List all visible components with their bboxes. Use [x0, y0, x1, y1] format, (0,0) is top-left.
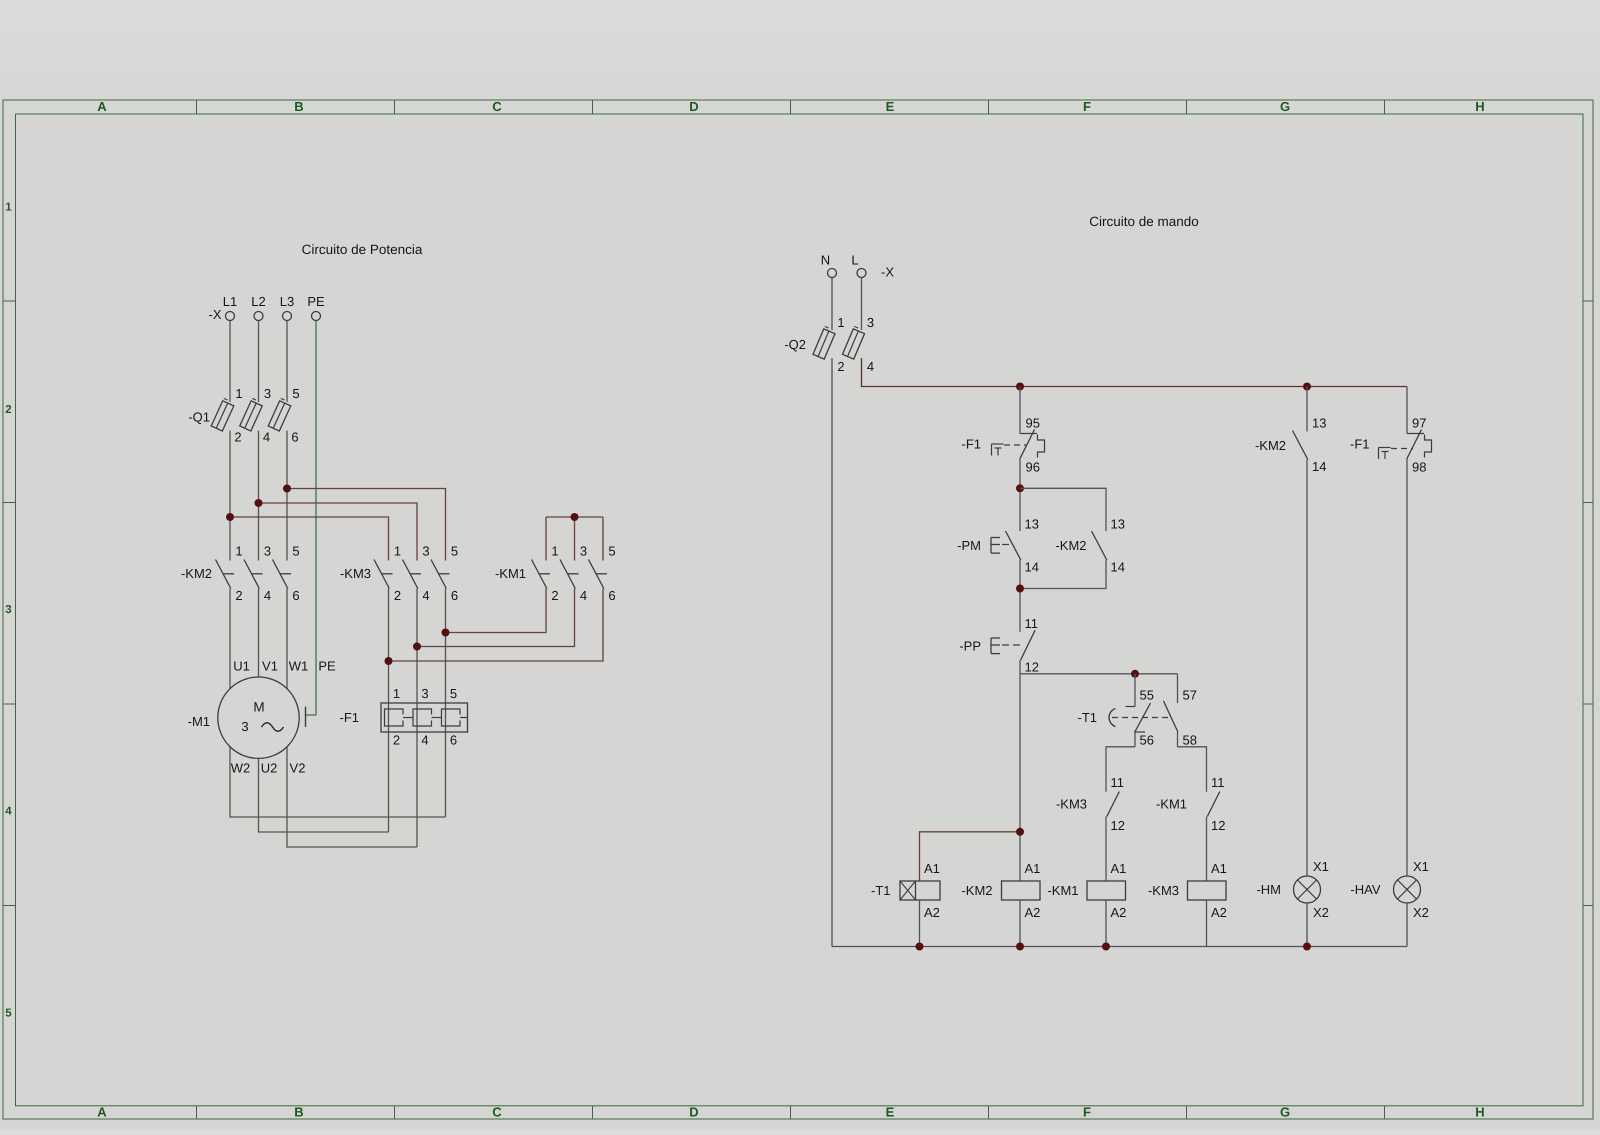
wire 58 to KM1 aux	[1178, 747, 1207, 792]
svg-text:C: C	[492, 1105, 502, 1120]
svg-text:Circuito de Potencia: Circuito de Potencia	[302, 242, 423, 257]
svg-text:N: N	[821, 253, 830, 268]
wire PE green down to motor	[306, 321, 317, 716]
svg-text:-HAV: -HAV	[1350, 882, 1380, 897]
node KM3-KM1 join 6	[442, 629, 450, 637]
aux contact -KM2 13-14 lamp branch	[1255, 387, 1327, 475]
wire -KM1 pole 4 to node	[417, 589, 575, 647]
svg-text:PE: PE	[307, 294, 325, 309]
svg-text:F: F	[1083, 99, 1091, 114]
svg-text:D: D	[689, 99, 698, 114]
svg-text:E: E	[886, 1105, 895, 1120]
wire -KM1 pole 6 to node	[389, 589, 604, 662]
svg-text:-KM2: -KM2	[1255, 438, 1286, 453]
coil -KM1	[1047, 861, 1126, 920]
wire rail to -F1 95	[1019, 387, 1021, 434]
svg-text:W2: W2	[231, 761, 251, 776]
wire F1 98 to lamp HAV	[1406, 459, 1408, 877]
node rail to KM2 13	[1303, 383, 1311, 391]
coil -KM2	[961, 861, 1040, 920]
motor -M1	[188, 659, 336, 776]
wire branch to timer coil T1	[920, 832, 1021, 881]
contactor -KM3 main contacts	[340, 544, 458, 604]
svg-text:14: 14	[1111, 560, 1125, 575]
svg-text:2: 2	[5, 404, 11, 416]
svg-text:-KM2: -KM2	[1055, 538, 1086, 553]
contactor -KM2 main contacts	[181, 544, 300, 604]
svg-text:2: 2	[394, 588, 401, 603]
wire L3 from -Q1 to -KM2 pole 5	[286, 431, 288, 561]
node L2 junction	[255, 499, 263, 507]
svg-text:2: 2	[234, 430, 241, 445]
svg-text:5: 5	[5, 1008, 12, 1020]
svg-text:-T1: -T1	[871, 883, 891, 898]
timer operator -T1	[1109, 709, 1172, 727]
svg-text:1: 1	[394, 544, 401, 559]
wire PM 14 down	[1019, 560, 1021, 632]
svg-text:2: 2	[837, 359, 844, 374]
node rejoin 14	[1016, 585, 1024, 593]
svg-text:5: 5	[292, 386, 299, 401]
svg-text:-Q1: -Q1	[188, 410, 210, 425]
wire L2 from -Q1 to -KM2 pole 3	[258, 431, 260, 561]
svg-text:3: 3	[5, 604, 11, 616]
svg-text:4: 4	[422, 588, 429, 603]
wire N rail down	[831, 358, 833, 947]
wire branch to KM2 13	[1020, 488, 1106, 531]
svg-text:2: 2	[235, 588, 242, 603]
wire motor V2 to -F1 pin 4	[287, 747, 417, 847]
node N T1	[916, 943, 924, 951]
frame row numbers left	[5, 202, 12, 1020]
node KM3-KM1 join 2	[385, 657, 393, 665]
wire motor W2 to -F1 pin 6	[230, 747, 446, 817]
svg-text:3: 3	[264, 386, 271, 401]
wire L from -X to -Q2	[861, 278, 863, 331]
svg-text:V1: V1	[262, 659, 278, 674]
svg-text:A1: A1	[1211, 861, 1227, 876]
svg-text:-HM: -HM	[1256, 882, 1281, 897]
svg-text:X2: X2	[1413, 905, 1429, 920]
svg-text:-KM2: -KM2	[961, 883, 992, 898]
svg-text:-F1: -F1	[340, 710, 360, 725]
svg-text:55: 55	[1140, 688, 1154, 703]
svg-text:13: 13	[1312, 416, 1326, 431]
svg-text:W1: W1	[289, 659, 309, 674]
svg-text:1: 1	[235, 386, 242, 401]
frame column letters top	[97, 99, 1484, 114]
svg-text:2: 2	[393, 733, 400, 748]
feed wire L3 to -KM3 pole 5	[287, 489, 446, 561]
wire L1 from -X to -Q1	[229, 321, 231, 403]
svg-text:-KM1: -KM1	[495, 566, 526, 581]
bottom N rail	[832, 946, 1407, 948]
svg-text:-KM3: -KM3	[1148, 883, 1179, 898]
timer contact -T1 57-58	[1164, 674, 1197, 748]
svg-text:Circuito de mando: Circuito de mando	[1089, 214, 1199, 229]
terminal -X (N L)	[821, 253, 895, 280]
svg-text:1: 1	[5, 202, 12, 214]
node KM1 feed junction	[571, 513, 579, 521]
svg-text:4: 4	[421, 733, 428, 748]
svg-text:-KM3: -KM3	[1056, 797, 1087, 812]
feed bar above -KM1	[546, 516, 603, 518]
wire KM3 A2 to N rail	[1206, 900, 1208, 947]
svg-text:A2: A2	[1025, 905, 1041, 920]
svg-text:-Q2: -Q2	[784, 337, 806, 352]
svg-text:PE: PE	[318, 659, 336, 674]
svg-text:L2: L2	[251, 294, 265, 309]
svg-text:A2: A2	[924, 905, 940, 920]
wire -KM3 pole 6 down through -F1	[445, 589, 447, 818]
node L1 junction	[226, 513, 234, 521]
svg-text:-PP: -PP	[959, 639, 981, 654]
svg-text:1: 1	[235, 544, 242, 559]
svg-text:4: 4	[580, 588, 587, 603]
coil -KM3	[1148, 861, 1227, 920]
pushbutton -PP 11-12 stop	[959, 616, 1039, 675]
svg-text:-M1: -M1	[188, 714, 210, 729]
svg-text:95: 95	[1026, 416, 1040, 431]
node L3 junction	[283, 485, 291, 493]
wire -KM3 pole 4 down through -F1	[416, 589, 418, 848]
svg-text:H: H	[1475, 99, 1484, 114]
frame column letters bottom	[97, 1105, 1484, 1120]
lamp -HM	[1256, 859, 1328, 920]
svg-text:L1: L1	[223, 294, 237, 309]
thermal contact -F1 97-98	[1350, 387, 1432, 475]
wire -KM3 pole 2 down through -F1	[388, 589, 390, 833]
svg-text:L3: L3	[280, 294, 294, 309]
svg-text:11: 11	[1111, 775, 1125, 790]
wire KM3 12 to coil KM1	[1105, 817, 1107, 882]
node KM3-KM1 join 4	[413, 643, 421, 651]
svg-text:-X: -X	[209, 307, 222, 322]
feed wire L1 to -KM3 pole 1	[230, 517, 389, 561]
svg-text:3: 3	[421, 686, 428, 701]
svg-text:-KM1: -KM1	[1047, 883, 1078, 898]
svg-text:13: 13	[1025, 517, 1039, 532]
svg-text:L: L	[851, 253, 858, 268]
svg-text:-F1: -F1	[1350, 437, 1370, 452]
svg-text:6: 6	[450, 733, 457, 748]
svg-text:U1: U1	[233, 659, 250, 674]
svg-text:B: B	[294, 99, 303, 114]
svg-text:1: 1	[393, 686, 400, 701]
svg-text:3: 3	[241, 719, 248, 734]
svg-text:6: 6	[451, 588, 458, 603]
svg-text:12: 12	[1025, 660, 1039, 675]
wire L2 from -X to -Q1	[258, 321, 260, 403]
timer contact -T1 55-56	[1078, 674, 1154, 748]
svg-text:96: 96	[1026, 460, 1040, 475]
node T1 coil branch	[1016, 828, 1024, 836]
svg-text:G: G	[1280, 99, 1290, 114]
svg-text:14: 14	[1312, 459, 1326, 474]
node 96 branch	[1016, 484, 1024, 492]
wire 56 to KM3 aux	[1106, 747, 1135, 792]
wire L3 from -X to -Q1	[286, 321, 288, 403]
svg-text:12: 12	[1111, 818, 1125, 833]
thermal overload relay -F1	[340, 686, 468, 748]
wire 96 to PM/KM2 branch	[1019, 459, 1021, 532]
svg-text:X1: X1	[1313, 859, 1329, 874]
wire KM1 A2 to N rail	[1105, 900, 1107, 947]
svg-text:6: 6	[291, 430, 298, 445]
svg-text:F: F	[1083, 1105, 1091, 1120]
svg-text:3: 3	[264, 544, 271, 559]
svg-text:-PM: -PM	[957, 538, 981, 553]
node N KM1	[1102, 943, 1110, 951]
timer coil -T1	[871, 861, 940, 920]
svg-text:U2: U2	[261, 761, 278, 776]
node N KM2	[1016, 943, 1024, 951]
svg-text:A2: A2	[1211, 905, 1227, 920]
svg-text:-KM2: -KM2	[181, 566, 212, 581]
svg-text:5: 5	[450, 686, 457, 701]
svg-text:M: M	[253, 700, 264, 715]
svg-text:6: 6	[608, 588, 615, 603]
svg-text:A1: A1	[1025, 861, 1041, 876]
wire T1 A2 to N rail	[919, 900, 921, 947]
wire L1 from -Q1 to -KM2 pole 1	[229, 431, 231, 561]
svg-text:G: G	[1280, 1105, 1290, 1120]
svg-text:A1: A1	[924, 861, 940, 876]
svg-text:56: 56	[1140, 733, 1154, 748]
wire -KM1 pole 2 to node	[446, 589, 547, 633]
svg-text:97: 97	[1412, 416, 1426, 431]
svg-text:E: E	[886, 99, 895, 114]
svg-text:6: 6	[292, 588, 299, 603]
svg-text:-T1: -T1	[1078, 710, 1098, 725]
terminal block -X (L1 L2 L3 PE)	[209, 294, 325, 322]
wire KM2 A2 to N rail	[1019, 900, 1021, 947]
svg-text:B: B	[294, 1105, 303, 1120]
svg-text:4: 4	[867, 359, 874, 374]
svg-text:5: 5	[292, 544, 299, 559]
wire motor U2 to -F1 pin 2	[259, 759, 389, 833]
node N HM	[1303, 943, 1311, 951]
svg-text:11: 11	[1025, 616, 1039, 631]
wire lamp HAV to N rail	[1406, 903, 1408, 947]
lamp -HAV	[1350, 859, 1429, 920]
wire lamp HM to N rail	[1306, 903, 1308, 947]
svg-text:4: 4	[5, 806, 12, 818]
feed wire L2 to -KM3 pole 3	[259, 503, 418, 561]
circuit breaker -Q2	[784, 315, 874, 374]
svg-text:2: 2	[551, 588, 558, 603]
svg-text:D: D	[689, 1105, 698, 1120]
svg-text:98: 98	[1412, 460, 1426, 475]
svg-text:C: C	[492, 99, 502, 114]
aux contact -KM3 11-12	[1056, 775, 1125, 833]
wire N from -X to -Q2	[831, 278, 833, 331]
node rail to F1 95	[1016, 383, 1024, 391]
svg-text:1: 1	[551, 544, 558, 559]
wire L rail top	[862, 358, 1408, 387]
svg-text:V2: V2	[290, 761, 306, 776]
wire KM1 12 to coil KM3	[1206, 817, 1208, 882]
svg-text:A: A	[97, 99, 107, 114]
svg-text:58: 58	[1183, 733, 1197, 748]
pushbutton -PM 13-14	[957, 517, 1039, 575]
aux contact -KM1 11-12	[1156, 775, 1226, 833]
svg-text:A2: A2	[1111, 905, 1127, 920]
wire -KM2 pole outputs to motor U1 V1 W1	[229, 589, 231, 691]
aux contact -KM2 13-14 seal	[1055, 517, 1125, 575]
svg-text:-KM1: -KM1	[1156, 797, 1187, 812]
svg-text:X1: X1	[1413, 859, 1429, 874]
svg-text:X2: X2	[1313, 905, 1329, 920]
svg-text:H: H	[1475, 1105, 1484, 1120]
svg-text:A: A	[97, 1105, 107, 1120]
node timer 55	[1131, 670, 1139, 678]
contactor -KM1 main contacts	[495, 544, 616, 604]
svg-text:-X: -X	[881, 265, 894, 280]
svg-text:A1: A1	[1111, 861, 1127, 876]
svg-text:1: 1	[837, 315, 844, 330]
wire PP 12 down to coil KM2	[1019, 661, 1021, 882]
svg-text:14: 14	[1025, 560, 1039, 575]
wire KM2 14 to lamp HM	[1306, 460, 1308, 877]
svg-text:3: 3	[867, 315, 874, 330]
svg-text:57: 57	[1183, 688, 1197, 703]
svg-text:11: 11	[1211, 775, 1225, 790]
svg-text:12: 12	[1211, 818, 1225, 833]
thermal contact -F1 95-96	[962, 416, 1045, 475]
svg-text:13: 13	[1111, 517, 1125, 532]
svg-text:5: 5	[451, 544, 458, 559]
circuit breaker -Q1	[188, 386, 299, 445]
svg-text:5: 5	[608, 544, 615, 559]
svg-text:3: 3	[422, 544, 429, 559]
svg-text:4: 4	[264, 588, 271, 603]
svg-text:3: 3	[580, 544, 587, 559]
svg-text:-F1: -F1	[962, 437, 982, 452]
wire KM2 14 rejoin	[1020, 560, 1106, 589]
svg-text:4: 4	[263, 430, 270, 445]
svg-text:-KM3: -KM3	[340, 566, 371, 581]
wire branch to timer contacts	[1020, 673, 1178, 675]
